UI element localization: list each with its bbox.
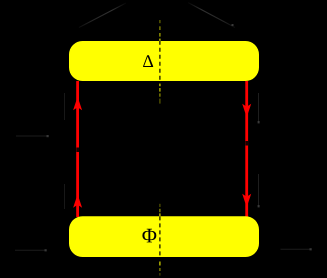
axis dashes below bottom plate (yellow, fading downward) [159,262,160,276]
right red flow line (downward) [245,81,248,217]
right annotation arrow upper (faint, down) [258,93,260,123]
axis dashes above top plate (yellow, fading upward) [159,20,160,41]
axis dashes below top plate (yellow, fading downward) [159,84,160,104]
bottom-right horizontal annotation arrow (faint, right) [281,248,312,250]
left arrowhead 2 (up) [73,194,82,207]
ray right (faint diagonal toward top plate) [188,3,235,28]
left horizontal annotation arrow (faint, right) [16,135,49,137]
right arrowhead 1 (down) [242,104,251,117]
label Φ on bottom plate [142,229,156,243]
axis dashes above bottom plate (yellow, fading upward) [159,204,160,217]
ray right end dot [232,24,234,26]
left arrowhead 1 (up) [73,97,82,110]
axis (black dashed) across bottom plate [159,216,161,257]
right annotation arrow lower (faint, down) [258,174,260,207]
label Δ on top plate [143,55,153,67]
left annotation arrow segment lower (faint) [64,184,66,209]
top plate [69,41,259,81]
bottom-left horizontal annotation arrow (faint, right) [15,249,47,251]
bottom plate [69,216,259,257]
axis (black dashed) across top plate [159,41,161,82]
dark notch on left red line [76,148,79,153]
dark notch on right red line [246,141,249,146]
right arrowhead 2 (down) [242,194,251,207]
left red flow line (upward) [76,81,79,217]
ray left (faint diagonal toward top plate) [79,3,126,28]
left annotation arrow segment upper (faint) [64,93,66,120]
